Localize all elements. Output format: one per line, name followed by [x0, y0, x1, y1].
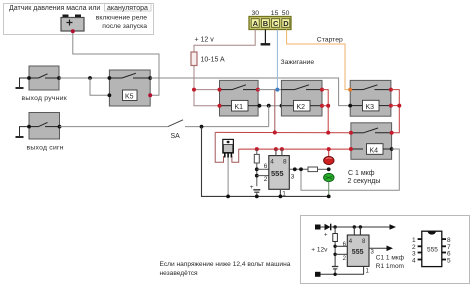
wire A to fuse [194, 30, 255, 53]
pin numbers right (DIP) [447, 237, 451, 264]
svg-text:3: 3 [412, 250, 416, 257]
node ground rail pin1 [279, 195, 283, 199]
node rail R1 top [255, 147, 259, 151]
capacitor C (timing, polar) [250, 184, 260, 197]
svg-text:3: 3 [291, 174, 295, 181]
node RC pin2 [255, 174, 259, 178]
pin D [283, 19, 289, 28]
relay K4 [351, 123, 392, 160]
node coil row a [258, 104, 262, 108]
label pin2 [264, 176, 268, 183]
node inset pin2 [333, 253, 336, 256]
timer U2 555 (inset) [347, 227, 369, 266]
label pin2 (inset) [343, 256, 347, 262]
label SA [171, 133, 181, 140]
node bus ignition join [273, 131, 277, 135]
label +12v (inset) [311, 247, 328, 254]
svg-text:1: 1 [282, 191, 286, 198]
wire SB1 to K5 [59, 77, 109, 79]
node K5 coil left [108, 93, 112, 97]
svg-text:D: D [283, 19, 289, 28]
svg-text:включение реле: включение реле [96, 15, 147, 22]
resistor R1 (inset) [333, 227, 338, 267]
pin numbers left (DIP) [412, 237, 416, 264]
label pin3 (inset) [371, 250, 375, 256]
wire K2 coil stub [322, 105, 328, 107]
wire inset ground row [321, 267, 364, 275]
svg-text:2: 2 [264, 176, 268, 183]
wire SB2 to SA [60, 126, 169, 128]
timer U1 555 [269, 149, 290, 196]
label +12v [195, 37, 215, 44]
svg-text:555: 555 [352, 249, 364, 256]
svg-text:выход сигн: выход сигн [27, 145, 64, 152]
wire inset pin6 [335, 245, 347, 247]
transistor Q1 (TO-220) [223, 139, 234, 157]
wire transistor middle leg to ground rail [227, 158, 229, 197]
wire D starter (orange) [287, 30, 351, 90]
label 30 [252, 10, 260, 17]
wire K1 to K2 coil row [258, 105, 281, 107]
wire bus down to transistor collector [215, 132, 223, 162]
ground (handbrake switch) [16, 78, 30, 88]
svg-text:6: 6 [447, 250, 451, 257]
wire fuse to K1 pins [194, 66, 220, 106]
note text (blue) line 2 [160, 270, 199, 277]
node K3 loop join [397, 104, 401, 108]
node K4 switch left [349, 131, 353, 135]
diode VD (inset) [324, 224, 331, 239]
node K4 coil left [349, 147, 353, 151]
node inset cap ground [333, 273, 336, 276]
relay K2 [281, 80, 322, 116]
wire inset pin2 [335, 253, 347, 255]
pin C [273, 19, 279, 28]
+12 timer rail (red) [239, 148, 351, 150]
fuse FU1 10-15A [191, 52, 197, 66]
svg-text:Стартер: Стартер [317, 37, 343, 44]
label pin6 (inset) [343, 242, 347, 248]
wire fuse branch to K1 switch [194, 89, 220, 91]
node battery plus [71, 29, 75, 33]
ground pin B [261, 30, 271, 45]
svg-text:R1 1mom: R1 1mom [376, 263, 404, 270]
svg-text:незаведётся: незаведётся [160, 270, 199, 277]
wire C ignition (blue) [276, 30, 278, 90]
svg-text:A: A [253, 19, 259, 28]
wire green LED to ground rail [328, 182, 330, 197]
note text line 3 [102, 23, 147, 30]
node rail pin4 [274, 147, 278, 151]
label C1 1 mkf (inset) [376, 255, 405, 262]
svg-text:4: 4 [270, 159, 274, 166]
wire to pin 6 [257, 168, 269, 170]
label pin1 [282, 191, 286, 198]
node rail LED [327, 147, 331, 151]
svg-text:Датчик давления масла или: Датчик давления масла или [9, 5, 100, 12]
node K4 switch right [390, 131, 394, 135]
svg-text:2 секунды: 2 секунды [348, 178, 381, 185]
label pin1 (inset) [366, 269, 370, 275]
node ground rail C [255, 195, 259, 199]
wire pin3 arrow (inset) [369, 247, 388, 249]
node K5 switch left [108, 76, 112, 80]
svg-text:B: B [263, 19, 269, 28]
label: выход ручник [22, 95, 67, 102]
switch SB1 (handbrake) [29, 66, 59, 90]
wire coil row down to SA rail [268, 106, 270, 127]
wire transistor emitter to +12 timer rail [232, 149, 239, 162]
node K5 coil right [148, 93, 152, 97]
wire pin3 to LED resistor [289, 168, 308, 170]
node K1 switch left [218, 88, 222, 92]
label: выход сигн [27, 145, 64, 152]
node pin3 b [299, 167, 303, 171]
node coil row b [267, 104, 271, 108]
svg-text:С 1 мкф: С 1 мкф [348, 170, 375, 177]
LED VD1 red [324, 156, 334, 164]
relay bus wire (red, K2/K4 row) [215, 131, 351, 133]
label C 1 mkf [348, 170, 375, 177]
node rail pin8 [280, 147, 284, 151]
node inset pin4 [353, 225, 356, 228]
svg-text:выход ручник: выход ручник [22, 95, 67, 102]
svg-text:K4: K4 [370, 147, 379, 154]
label pin3 [291, 174, 295, 181]
svg-text:4: 4 [412, 257, 416, 264]
label 10-15 A [201, 57, 225, 64]
node K1 switch right [256, 88, 260, 92]
label 15 [271, 10, 279, 17]
label Зажигание [281, 59, 315, 66]
label 2 sec [348, 178, 381, 185]
wire K4 coil right to timer loop [301, 149, 399, 190]
node K5 switch right [148, 76, 152, 80]
node inset pin8 [359, 225, 362, 228]
wire to pin 2 [257, 175, 269, 177]
svg-text:5: 5 [447, 257, 451, 264]
svg-text:555: 555 [427, 247, 438, 254]
node SB2 right [58, 125, 62, 129]
svg-text:K2: K2 [297, 104, 306, 111]
node ground rail LED [327, 195, 331, 199]
svg-text:С1 1 мкф: С1 1 мкф [376, 255, 405, 262]
wire branch down to K5 coil left [90, 78, 109, 95]
svg-text:+ 12v: + 12v [311, 247, 328, 254]
switch SB2 (signal) [29, 113, 60, 140]
arrow right (inset top) [390, 224, 397, 230]
node coil row c [280, 104, 284, 108]
wire SA junction down to ground rail [202, 127, 329, 197]
svg-text:10-15 A: 10-15 A [201, 57, 225, 64]
label Стартер [317, 37, 343, 44]
note text line 2 [96, 15, 147, 22]
node K3 coil left [348, 104, 352, 108]
relay K5 [109, 70, 150, 106]
label pin6 [264, 163, 268, 170]
wire ignition drop to relay bus (dark red) [274, 90, 276, 133]
node K4 coil right [390, 147, 394, 151]
node K1 coil left [218, 104, 222, 108]
pin B [263, 19, 269, 28]
inset box: 555 example [301, 216, 470, 284]
node inset R1 top [333, 225, 336, 228]
relay K1 [220, 80, 259, 116]
svg-text:K3: K3 [366, 104, 375, 111]
node K2 coil right [320, 104, 324, 108]
switch SA [168, 120, 202, 127]
svg-text:K1: K1 [235, 104, 244, 111]
node LED junction [327, 167, 331, 171]
node K3 coil right [389, 104, 393, 108]
wire red LED top [328, 149, 330, 157]
node SB2 left [27, 125, 31, 129]
pin A [253, 19, 259, 28]
node inset pin6 [333, 245, 336, 248]
wire battery to K5 right coil pin [73, 31, 159, 95]
node ignition blue [275, 88, 279, 92]
wire diode to arrow (inset +12 rail) [331, 226, 391, 228]
relay K3 [350, 80, 391, 116]
node K2 switch right [320, 88, 324, 92]
svg-text:SA: SA [171, 133, 181, 140]
note text (blue) line 1 [160, 261, 291, 268]
IC DIP-8 pinout [422, 231, 442, 266]
node K3 switch right [389, 88, 393, 92]
svg-text:8: 8 [447, 237, 451, 244]
resistor R2 (LED) [308, 167, 318, 172]
node K2 join [326, 104, 330, 108]
svg-text:C: C [273, 19, 279, 28]
svg-text:Если напряжение ниже 12,4 воль: Если напряжение ниже 12,4 вольт машина [160, 261, 291, 268]
svg-text:1: 1 [412, 237, 416, 244]
capacitor C1 (inset) [332, 267, 338, 275]
wire terminal to diode [321, 226, 325, 228]
label R1 1mom (inset) [376, 263, 404, 270]
connector block X1 [249, 17, 291, 30]
wire R2 to LED junction [318, 168, 329, 170]
node pin3 a [293, 167, 297, 171]
label 50 [282, 10, 290, 17]
arrow right (inset pin3) [387, 246, 394, 252]
svg-text:6: 6 [264, 163, 268, 170]
svg-text:после запуска: после запуска [102, 23, 147, 30]
svg-text:555: 555 [271, 169, 284, 178]
wire K2 right pins to bus [322, 90, 328, 133]
node ground rail Q1 [226, 195, 230, 199]
node SB1 right [57, 76, 61, 80]
ground (signal switch) [16, 127, 30, 137]
svg-text:+ 12 v: + 12 v [195, 37, 215, 44]
node K3 switch left (starter) [348, 88, 352, 92]
battery GB1 [61, 15, 84, 32]
svg-text:Зажигание: Зажигание [281, 59, 315, 66]
node SA junction [200, 125, 204, 129]
svg-text:аканулятора: аканулятора [107, 5, 148, 12]
svg-text:K5: K5 [125, 94, 134, 101]
svg-text:+: + [324, 233, 328, 239]
LED VD2 green [324, 173, 334, 181]
pin stubs left (DIP) [418, 238, 422, 260]
wire SA to coil-row drop [202, 126, 269, 128]
wire K3 right loop to K4 [391, 90, 399, 133]
node fuse branch [192, 88, 196, 92]
wire K1 to K2 switch row [258, 89, 282, 91]
wire K3 coil right stub [391, 105, 399, 107]
node branch to K5 coil [88, 76, 92, 80]
wire K5 switch rail to K3 coil [150, 78, 350, 106]
note text line 1 [9, 3, 151, 11]
node SB1 left [27, 76, 31, 80]
node bus K2 join [326, 131, 330, 135]
pin stubs right (DIP) [442, 238, 446, 260]
terminal minus (inset) [315, 272, 321, 277]
svg-text:+: + [250, 184, 254, 191]
terminal plus (inset) [315, 225, 321, 230]
info box: sensor note [4, 4, 154, 35]
resistor R (timing) [254, 149, 259, 186]
node RC pin6 [255, 167, 259, 171]
svg-text:8: 8 [283, 159, 287, 166]
